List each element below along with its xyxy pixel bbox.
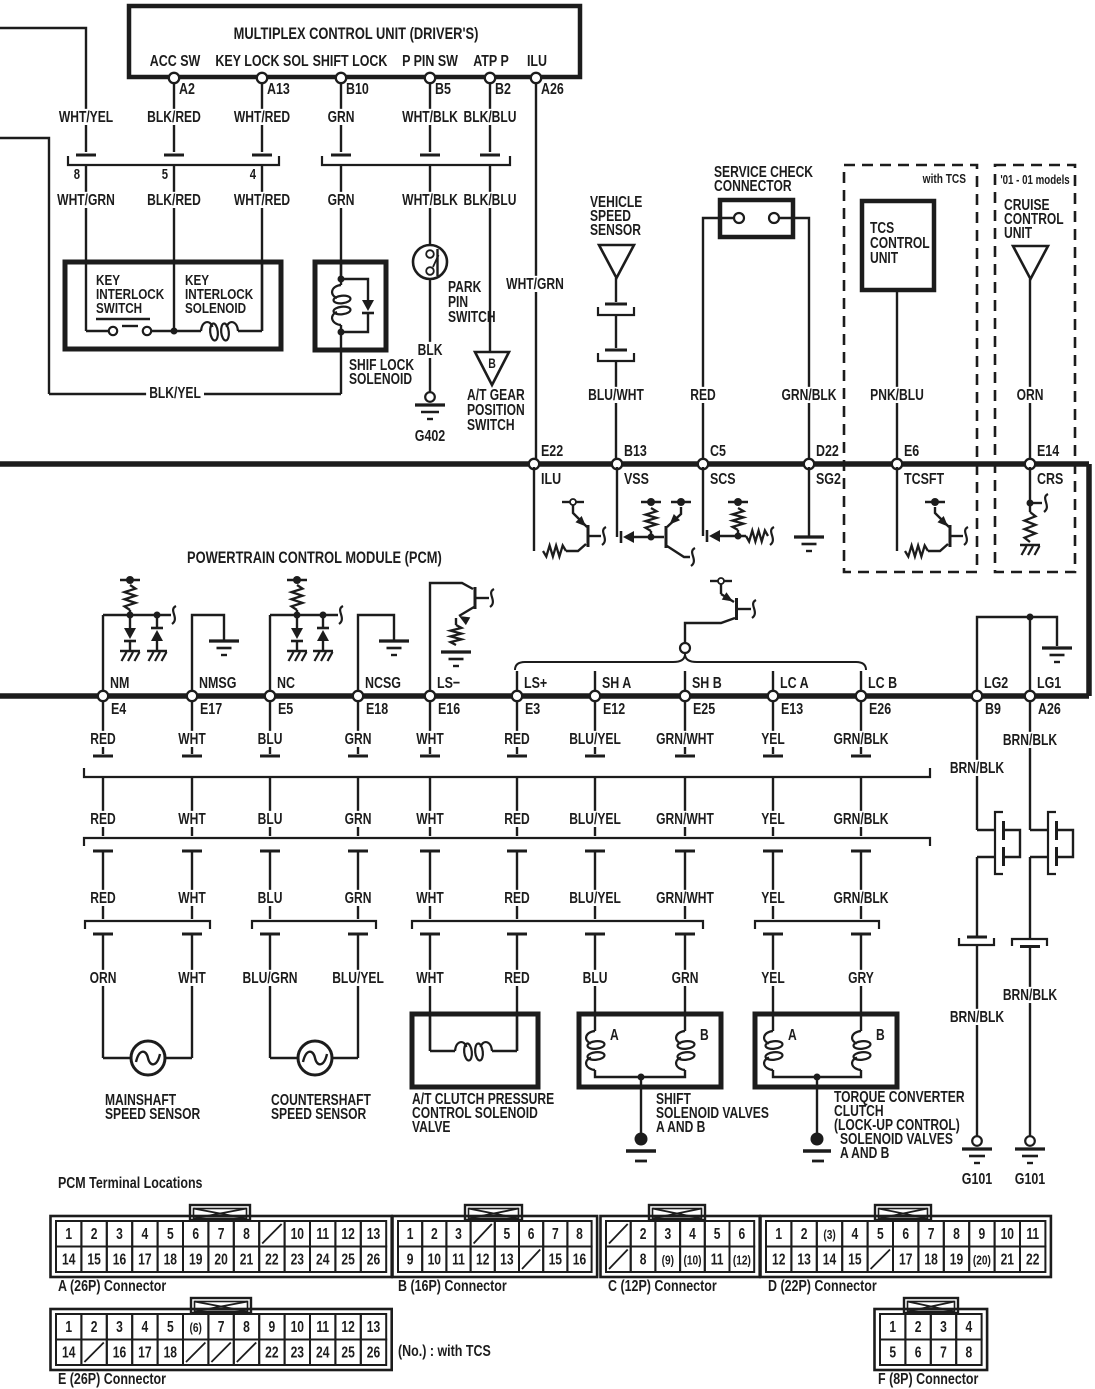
svg-text:(6): (6)	[190, 1321, 202, 1335]
PCM terminal E17 (NMSG)	[187, 691, 197, 701]
svg-text:9: 9	[979, 1225, 986, 1243]
wire BLK park pin switch to ground	[429, 279, 431, 392]
svg-text:5: 5	[167, 1225, 174, 1243]
wire RED inside valve box	[516, 1014, 518, 1051]
svg-text:GRN/WHT: GRN/WHT	[656, 810, 714, 828]
wire from vehicle speed sensor	[615, 278, 617, 302]
svg-text:11: 11	[316, 1225, 329, 1243]
svg-text:1: 1	[65, 1318, 72, 1336]
svg-text:G101: G101	[962, 1171, 993, 1189]
svg-text:NCSG: NCSG	[365, 675, 401, 693]
wire BRN/BLK from A26	[1029, 702, 1031, 830]
svg-text:19: 19	[950, 1250, 964, 1268]
svg-text:RED: RED	[504, 730, 529, 748]
svg-text:E16: E16	[438, 701, 460, 719]
svg-text:SWITCH: SWITCH	[96, 300, 142, 317]
wire GRN/BLK segment 2	[860, 777, 862, 836]
wire label RED (3)	[501, 890, 532, 906]
svg-text:ILU: ILU	[527, 53, 547, 71]
PCM terminal B13 (VSS)	[612, 459, 622, 469]
wire label RED (2)	[501, 811, 532, 827]
junction bottom of shift lock solenoid	[338, 329, 345, 336]
svg-text:WHT: WHT	[416, 889, 444, 907]
svg-text:11: 11	[1026, 1225, 1039, 1243]
svg-text:8: 8	[243, 1225, 250, 1243]
svg-text:26: 26	[367, 1343, 381, 1361]
svg-text:WHT/GRN: WHT/GRN	[506, 275, 564, 293]
stub wire from brace to terminal	[860, 671, 862, 693]
wire label BLU/GRN	[240, 970, 301, 986]
wire to solenoid coil	[151, 330, 201, 332]
svg-text:1: 1	[889, 1318, 896, 1336]
svg-text:(No.) : with TCS: (No.) : with TCS	[398, 1343, 491, 1361]
wire GRN segment 2	[357, 777, 359, 836]
svg-text:5: 5	[167, 1318, 174, 1336]
svg-text:WHT: WHT	[178, 889, 206, 907]
svg-text:E25: E25	[693, 701, 715, 719]
svg-text:VSS: VSS	[624, 471, 649, 489]
svg-text:GRN: GRN	[345, 730, 372, 748]
wire label WHT/GRN (lower)	[54, 192, 118, 208]
svg-text:BRN/BLK: BRN/BLK	[1003, 731, 1057, 749]
svg-text:G101: G101	[1015, 1171, 1046, 1189]
svg-text:13: 13	[500, 1250, 514, 1268]
connector F (8P) pin grid	[904, 1298, 958, 1313]
wire label BLK/BLU (lower)	[461, 192, 520, 208]
svg-text:14: 14	[823, 1250, 837, 1268]
wire label GRN/WHT (2)	[653, 811, 717, 827]
wire WHT segment 3	[191, 851, 193, 919]
svg-text:3: 3	[664, 1225, 671, 1243]
wire WHT/YEL from left edge	[0, 28, 86, 152]
PCM terminal E4 (NM)	[98, 691, 108, 701]
svg-text:8: 8	[576, 1225, 583, 1243]
svg-text:4: 4	[966, 1318, 973, 1336]
pin B5 of multiplex control unit	[425, 73, 435, 83]
svg-text:SG2: SG2	[816, 471, 841, 489]
svg-text:NM: NM	[110, 675, 129, 693]
wire label GRN (3)	[342, 890, 375, 906]
wire shift lock solenoid to BLK/YEL	[340, 325, 342, 394]
pin A13 of multiplex control unit	[257, 73, 267, 83]
svg-text:BLU/YEL: BLU/YEL	[569, 889, 621, 907]
wire label GRN/BLK (3)	[830, 890, 891, 906]
svg-text:BLU: BLU	[258, 730, 283, 748]
wire label WHT/BLK	[399, 109, 461, 125]
svg-text:23: 23	[291, 1250, 305, 1268]
svg-text:24: 24	[316, 1343, 330, 1361]
wire GRN from terminal	[357, 702, 359, 754]
wire label WHT (2)	[175, 811, 209, 827]
A/T gear position switch	[475, 352, 509, 385]
PCM terminal E25 (SH B)	[680, 691, 690, 701]
svg-text:14: 14	[62, 1250, 76, 1268]
svg-text:6: 6	[528, 1225, 535, 1243]
svg-text:4: 4	[852, 1225, 859, 1243]
svg-text:RED: RED	[90, 810, 115, 828]
wire WHT segment 2	[191, 777, 193, 836]
svg-text:GRY: GRY	[848, 969, 874, 987]
stub wire from brace to terminal	[594, 671, 596, 693]
svg-text:RED: RED	[504, 889, 529, 907]
PCM terminal E22 (ILU)	[529, 459, 539, 469]
wire label YEL (2)	[758, 811, 787, 827]
svg-text:POWERTRAIN CONTROL MODULE (PCM: POWERTRAIN CONTROL MODULE (PCM)	[187, 550, 442, 568]
svg-text:2: 2	[91, 1225, 98, 1243]
shift solenoid valves A and B box	[579, 1014, 721, 1087]
wire coil to WHT/RED	[238, 330, 262, 332]
key interlock switch contacts	[85, 262, 87, 331]
TCS control unit box	[862, 201, 934, 290]
svg-text:A2: A2	[179, 81, 195, 99]
pin A2 of multiplex control unit	[169, 73, 179, 83]
svg-text:WHT/YEL: WHT/YEL	[59, 108, 114, 126]
svg-text:WHT: WHT	[178, 810, 206, 828]
clamp diode to chassis ground	[291, 628, 303, 639]
svg-text:PCM Terminal Locations: PCM Terminal Locations	[58, 1175, 203, 1193]
wire label BLU/YEL (3)	[566, 890, 624, 906]
wire between VSS connectors	[615, 315, 617, 348]
svg-text:E26: E26	[869, 701, 891, 719]
in-line connector row 2	[84, 838, 930, 846]
svg-text:SOLENOID: SOLENOID	[185, 300, 246, 317]
in-line connector group 2	[331, 154, 351, 157]
wire from pin down to connector	[489, 84, 491, 152]
svg-text:22: 22	[265, 1343, 279, 1361]
ground (shift solenoid valves)	[635, 1133, 648, 1146]
svg-text:GRN/BLK: GRN/BLK	[834, 810, 889, 828]
svg-text:12: 12	[341, 1318, 355, 1336]
torque converter clutch solenoid valves box	[755, 1014, 897, 1087]
svg-text:ATP P: ATP P	[473, 53, 509, 71]
svg-text:(9): (9)	[662, 1253, 674, 1267]
cruise control unit symbol	[1013, 246, 1048, 279]
wire from pin down to connector	[429, 84, 431, 152]
svg-text:LG2: LG2	[984, 675, 1008, 693]
wire label GRN	[325, 109, 358, 125]
junction of shift solenoid common	[638, 1074, 645, 1081]
wire label GRN	[342, 731, 375, 747]
clamp diode (reversed) to chassis ground	[317, 627, 329, 630]
svg-text:WHT: WHT	[416, 810, 444, 828]
lock-up solenoid valve A coil	[764, 1031, 773, 1044]
svg-text:SPEED SENSOR: SPEED SENSOR	[105, 1105, 200, 1123]
svg-text:5: 5	[714, 1225, 721, 1243]
in-line connector on A26 BRN/BLK wire	[1012, 939, 1047, 946]
svg-text:18: 18	[924, 1250, 938, 1268]
PCM internal circuit for CRS: resistor to chassis ground	[1029, 467, 1031, 512]
wire GRN/BLK from terminal	[860, 702, 862, 754]
svg-text:7: 7	[218, 1318, 225, 1336]
wire label BRN/BLK (B9)	[947, 760, 1008, 776]
PCM terminal E18 (NCSG)	[353, 691, 363, 701]
wire terminal to internal node	[269, 615, 271, 693]
PCM terminal E12 (SH A)	[590, 691, 600, 701]
svg-text:PNK/BLU: PNK/BLU	[870, 386, 924, 404]
park pin switch plunger bar	[436, 249, 438, 276]
wire RED segment 2	[102, 777, 104, 836]
svg-text:8: 8	[243, 1318, 250, 1336]
svg-text:BLU: BLU	[583, 969, 608, 987]
in-line connector group (pins 8,5,4)	[76, 154, 96, 157]
wire GRY to component	[860, 934, 862, 1031]
svg-text:LC A: LC A	[780, 675, 809, 693]
wire label WHT	[175, 970, 209, 986]
svg-text:15: 15	[549, 1250, 563, 1268]
wire label WHT (2)	[413, 811, 447, 827]
svg-text:LG1: LG1	[1037, 675, 1061, 693]
svg-text:4: 4	[142, 1225, 149, 1243]
svg-text:GRN: GRN	[328, 108, 355, 126]
svg-text:CONNECTOR: CONNECTOR	[714, 177, 792, 195]
PCM terminal D22 (SG2)	[804, 459, 814, 469]
svg-text:9: 9	[269, 1318, 276, 1336]
svg-text:RED: RED	[90, 730, 115, 748]
svg-text:BLU/YEL: BLU/YEL	[332, 969, 384, 987]
svg-text:BLU: BLU	[258, 810, 283, 828]
svg-text:1: 1	[775, 1225, 782, 1243]
svg-text:E5: E5	[278, 701, 293, 719]
svg-text:E17: E17	[200, 701, 222, 719]
PCM internal ground for NMSG	[192, 615, 224, 693]
svg-text:SH A: SH A	[602, 675, 631, 693]
common wire of shift solenoids	[595, 1070, 685, 1077]
wire BRN/BLK A26 to connector	[1029, 857, 1031, 939]
wire label GRN/BLK	[778, 387, 839, 403]
svg-text:26: 26	[367, 1250, 381, 1268]
svg-text:E6: E6	[904, 443, 919, 461]
in-line connector row 1 (PCM harness)	[93, 755, 113, 758]
wire label BLU/YEL	[566, 731, 624, 747]
PCM lower bus line	[0, 693, 1089, 699]
joint connector (A26 BRN/BLK)	[1030, 829, 1048, 831]
wire label BRN/BLK (A26 lower)	[1000, 987, 1061, 1003]
shift solenoid valve B coil	[676, 1031, 685, 1044]
wire RED segment 3	[516, 851, 518, 919]
PCM terminal B9 (LG2)	[972, 691, 982, 701]
svg-text:16: 16	[573, 1250, 587, 1268]
svg-text:16: 16	[113, 1343, 127, 1361]
countershaft speed sensor	[270, 1057, 298, 1059]
wire label BLK/RED (lower)	[144, 192, 204, 208]
svg-text:YEL: YEL	[761, 889, 785, 907]
wire label WHT	[175, 731, 209, 747]
svg-text:2: 2	[91, 1318, 98, 1336]
svg-text:11: 11	[452, 1250, 465, 1268]
wire RED segment 3	[102, 851, 104, 919]
wire label RED	[501, 970, 532, 986]
wire YEL from terminal	[772, 702, 774, 754]
svg-text:GRN/WHT: GRN/WHT	[656, 889, 714, 907]
svg-text:SOLENOID: SOLENOID	[349, 370, 412, 388]
svg-text:SPEED SENSOR: SPEED SENSOR	[271, 1105, 366, 1123]
svg-text:D (22P) Connector: D (22P) Connector	[768, 1278, 877, 1296]
svg-text:7: 7	[552, 1225, 559, 1243]
svg-text:C5: C5	[710, 443, 726, 461]
A/T clutch pressure control solenoid coil	[455, 1042, 467, 1051]
wire WHT/BLK to park pin switch	[429, 165, 431, 245]
stub wire from brace to terminal	[684, 671, 686, 693]
svg-text:BLK: BLK	[418, 341, 443, 359]
svg-text:19: 19	[189, 1250, 203, 1268]
svg-text:ORN: ORN	[1017, 386, 1044, 404]
wire label BRN/BLK (A26)	[1000, 732, 1061, 748]
svg-text:LS+: LS+	[524, 675, 547, 693]
svg-text:15: 15	[87, 1250, 101, 1268]
svg-text:B2: B2	[495, 81, 511, 99]
svg-text:BLK/RED: BLK/RED	[147, 191, 201, 209]
svg-text:NC: NC	[277, 675, 295, 693]
svg-text:BLK/RED: BLK/RED	[147, 108, 201, 126]
svg-text:(3): (3)	[823, 1228, 835, 1242]
wire BRN/BLK B9 to G101	[976, 945, 978, 1136]
PCM internal circuit for TCSFT: resistor + transistor Q3	[896, 467, 898, 551]
wire BLU/YEL from terminal	[594, 702, 596, 754]
wire GRN segment 3	[357, 851, 359, 919]
svg-text:25: 25	[341, 1343, 355, 1361]
mainshaft speed sensor	[103, 1057, 131, 1059]
svg-text:10: 10	[291, 1318, 305, 1336]
svg-text:23: 23	[291, 1343, 305, 1361]
wire label BLU	[580, 970, 611, 986]
lock-up solenoid valve B coil	[852, 1031, 861, 1044]
wire label BLK	[415, 342, 446, 358]
clamp diode (reversed) to chassis ground	[151, 627, 163, 630]
svg-text:10: 10	[291, 1225, 305, 1243]
wire from pin down to connector	[261, 84, 263, 152]
switch bar	[96, 318, 150, 320]
wire label BLU/WHT	[585, 387, 647, 403]
wire label WHT	[413, 970, 447, 986]
wire label RED	[687, 387, 718, 403]
wire BRN/BLK B9 to connector	[976, 857, 978, 936]
pin A26 of multiplex control unit	[531, 73, 541, 83]
svg-text:10: 10	[428, 1250, 442, 1268]
svg-text:E3: E3	[525, 701, 540, 719]
svg-text:BLK/YEL: BLK/YEL	[149, 384, 201, 402]
svg-text:YEL: YEL	[761, 810, 785, 828]
wire BRN/BLK A26 to G101	[1029, 946, 1031, 1136]
svg-text:WHT: WHT	[178, 730, 206, 748]
clamp diode to chassis ground	[124, 628, 136, 639]
svg-text:NMSG: NMSG	[199, 675, 236, 693]
svg-text:ORN: ORN	[90, 969, 117, 987]
svg-text:WHT/RED: WHT/RED	[234, 191, 290, 209]
svg-text:VALVE: VALVE	[412, 1118, 450, 1136]
svg-text:GRN/WHT: GRN/WHT	[656, 730, 714, 748]
wire GRN to shift lock solenoid	[340, 165, 342, 279]
svg-text:GRN/BLK: GRN/BLK	[834, 889, 889, 907]
wire GRN to component	[684, 934, 686, 1031]
wire from pin down to connector	[340, 84, 342, 152]
wire from pin down to connector	[173, 84, 175, 152]
svg-text:A AND B: A AND B	[840, 1144, 889, 1162]
svg-text:BLU: BLU	[258, 889, 283, 907]
svg-text:13: 13	[367, 1225, 381, 1243]
component connectors row 3	[85, 921, 210, 929]
svg-text:GRN: GRN	[672, 969, 699, 987]
svg-text:C (12P) Connector: C (12P) Connector	[608, 1278, 717, 1296]
svg-text:D22: D22	[816, 443, 839, 461]
svg-text:SCS: SCS	[710, 471, 736, 489]
wire to BLK/YEL from left edge	[0, 138, 49, 394]
wire BLU/GRN to component	[269, 934, 271, 1058]
wire ORN to PCM E14	[1029, 279, 1031, 461]
svg-text:WHT/BLK: WHT/BLK	[402, 191, 458, 209]
svg-text:YEL: YEL	[761, 730, 785, 748]
PCM right side bus line	[1086, 464, 1092, 696]
PCM internal driver transistor Q5 for solenoid outputs	[718, 578, 724, 584]
PCM terminal E16 (LS−)	[425, 691, 435, 701]
wire ILU A26 down to PCM E22	[535, 84, 537, 461]
svg-text:3: 3	[116, 1318, 123, 1336]
wire GRN/BLK to PCM D22	[779, 218, 809, 461]
svg-text:A26: A26	[1038, 701, 1061, 719]
multiplex control unit (driver's) box U-MCU	[129, 6, 580, 77]
wire label ORN	[1014, 387, 1047, 403]
svg-text:2: 2	[801, 1225, 808, 1243]
wire label RED	[501, 731, 532, 747]
wire label GRN/BLK (2)	[830, 811, 891, 827]
wire label RED (3)	[87, 890, 118, 906]
stub wire from brace to terminal	[772, 671, 774, 693]
junction of lock-up solenoid common	[814, 1074, 821, 1081]
svg-text:YEL: YEL	[761, 969, 785, 987]
brace grouping LS+ SH A SH B LC A LC B	[515, 654, 866, 670]
connector E (26P) pin grid	[191, 1298, 251, 1313]
wire label BRN/BLK (B9 lower)	[947, 1009, 1008, 1025]
pin B10 of multiplex control unit	[336, 73, 346, 83]
svg-text:8: 8	[966, 1343, 973, 1361]
wire label GRN	[669, 970, 702, 986]
PCM terminal C5 (SCS)	[698, 459, 708, 469]
svg-text:A (26P) Connector: A (26P) Connector	[58, 1278, 167, 1296]
svg-text:(20): (20)	[973, 1253, 991, 1267]
PCM terminal E26 (LC B)	[856, 691, 866, 701]
svg-text:7: 7	[940, 1343, 947, 1361]
svg-text:21: 21	[1001, 1250, 1015, 1268]
svg-text:A: A	[610, 1026, 619, 1044]
svg-text:RED: RED	[504, 810, 529, 828]
svg-text:WHT: WHT	[416, 969, 444, 987]
svg-text:24: 24	[316, 1250, 330, 1268]
svg-text:A26: A26	[541, 81, 564, 99]
internal horizontal wire	[103, 614, 171, 616]
wire BLU/YEL segment 2	[594, 777, 596, 836]
svg-text:3: 3	[455, 1225, 462, 1243]
svg-text:WHT/GRN: WHT/GRN	[57, 191, 115, 209]
svg-text:GRN/BLK: GRN/BLK	[782, 386, 837, 404]
wire BLU segment 3	[269, 851, 271, 919]
PCM upper bus line	[0, 461, 1089, 467]
dashed option box: 01-01 models	[995, 165, 1075, 572]
wire shift solenoids to ground	[640, 1077, 642, 1134]
svg-text:BRN/BLK: BRN/BLK	[950, 1008, 1004, 1026]
diode branch lower wire	[341, 313, 368, 332]
wire RED from terminal	[102, 702, 104, 754]
svg-text:GRN: GRN	[345, 810, 372, 828]
svg-text:WHT: WHT	[416, 730, 444, 748]
wire label GRY	[845, 970, 877, 986]
wire RED to PCM C5	[703, 218, 734, 461]
svg-text:A AND B: A AND B	[656, 1118, 705, 1136]
wire WHT to component	[429, 934, 431, 1051]
svg-text:BLK/BLU: BLK/BLU	[464, 191, 517, 209]
svg-text:17: 17	[138, 1250, 152, 1268]
svg-text:12: 12	[476, 1250, 490, 1268]
ground G101	[972, 1136, 982, 1146]
connector A (26P) pin grid	[190, 1205, 250, 1220]
